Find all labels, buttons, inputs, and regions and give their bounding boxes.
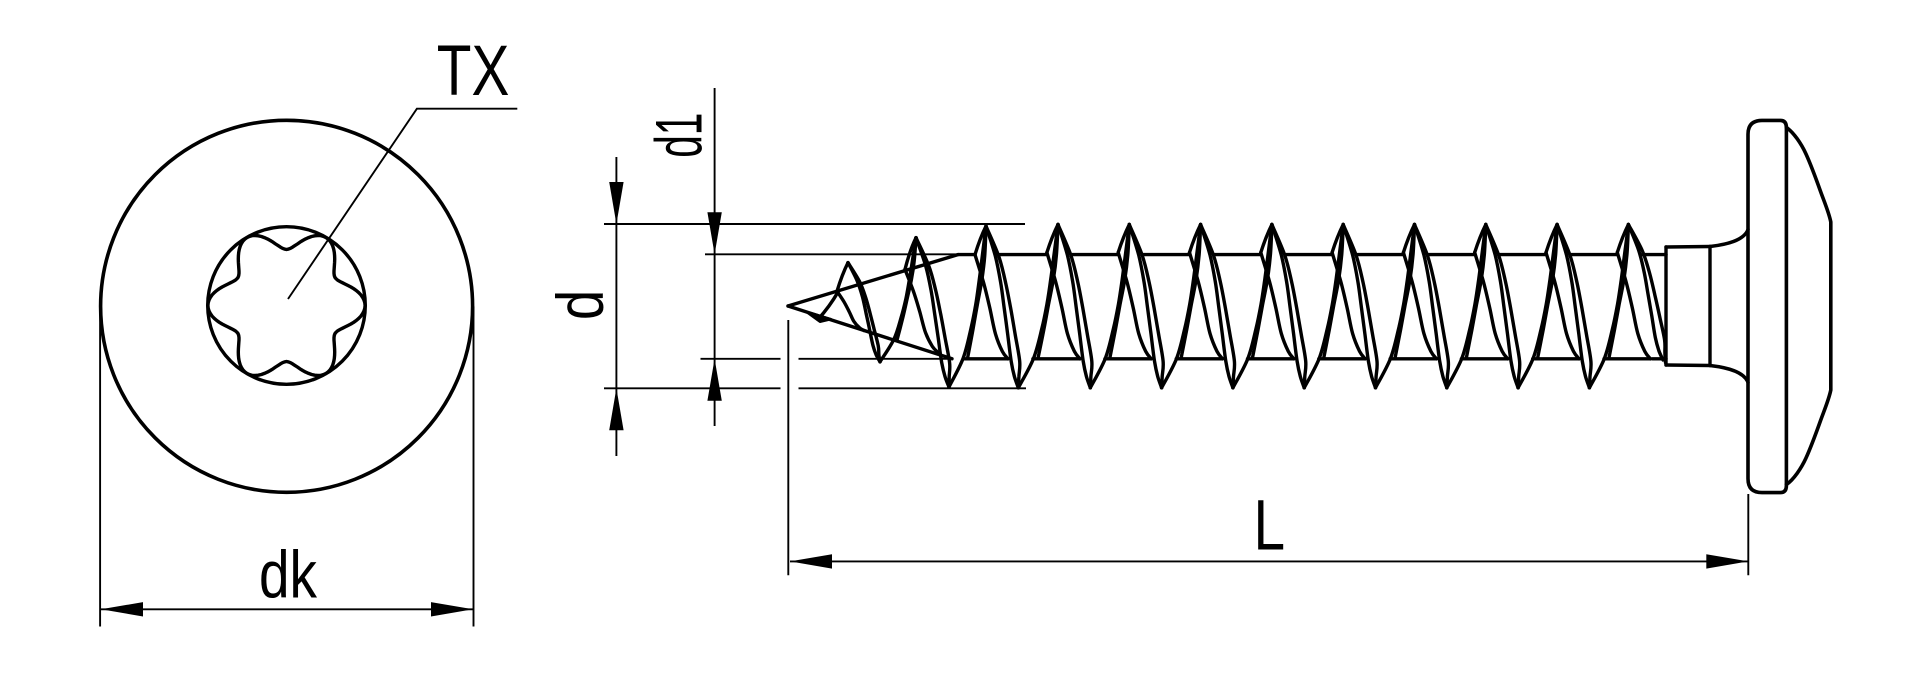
neck end edge: [1708, 247, 1711, 366]
svg-text:L: L: [1254, 485, 1286, 565]
thread turn 9 front flank a: [1415, 225, 1447, 388]
thread turn 2 back flank b: [968, 226, 987, 358]
dk extension line left: [99, 307, 101, 627]
thread turn 11 back flank a: [1589, 225, 1628, 388]
neck lower line: [1666, 363, 1710, 367]
L extension line right: [1747, 494, 1749, 575]
thread turn 3 back flank a: [1018, 225, 1058, 388]
thread turn 6 back flank a: [1233, 225, 1272, 388]
thread turn 5 front flank b: [1129, 225, 1163, 388]
thread turn 12 root flank curve: [1617, 253, 1650, 359]
thread turn 6 front flank b: [1201, 225, 1235, 388]
svg-text:d1: d1: [642, 113, 716, 158]
thread crest 3 left edge: [975, 226, 986, 255]
thread turn 4 root flank curve: [1047, 253, 1080, 359]
thread start spike: [806, 312, 831, 322]
thread turn 10 back flank a: [1518, 225, 1557, 388]
svg-text:dk: dk: [259, 538, 317, 612]
svg-text:d: d: [543, 290, 617, 320]
head dome profile: [1786, 128, 1830, 485]
thread turn 1 front flank b: [848, 263, 880, 362]
thread crest 12 left edge: [1617, 225, 1628, 253]
thread turn 12 front flank b: [1628, 225, 1665, 363]
d1 extension line bottom: [701, 358, 953, 360]
thread turn 2 root flank curve: [905, 269, 938, 352]
thread turn 11 front flank a: [1557, 225, 1589, 388]
L dimension line: [790, 560, 1748, 562]
thread turn 11 front flank b: [1557, 225, 1591, 388]
d arrow top: [609, 182, 623, 224]
under-head fillet top: [1710, 230, 1748, 247]
thread turn 4 front flank a: [1058, 225, 1090, 388]
dk extension line right: [473, 307, 475, 627]
d arrow bottom: [609, 388, 623, 430]
thread turn 1 back flank a: [880, 238, 916, 362]
thread turn 9 root flank curve: [1403, 253, 1436, 359]
thread turn 11 root flank curve: [1546, 253, 1579, 359]
thread turn 7 back flank a: [1304, 225, 1343, 388]
head washer flange: [1748, 120, 1786, 492]
L arrow right: [1706, 554, 1748, 568]
thread turn 12 front flank a: [1628, 225, 1663, 361]
thread turn 9 back flank b: [1466, 225, 1486, 359]
thread turn 3 root flank curve: [975, 255, 1008, 359]
thread turn 8 back flank b: [1395, 225, 1415, 359]
thread turn 5 root flank curve: [1118, 253, 1151, 359]
thread turn 10 front flank b: [1486, 225, 1520, 388]
thread turn 8 front flank a: [1343, 225, 1375, 388]
thread turn 8 back flank a: [1376, 225, 1415, 388]
thread turn 2 back flank a: [949, 226, 986, 387]
TX leader line: [288, 109, 517, 299]
thread turn 1 back flank b: [897, 238, 916, 340]
thread turn 6 root flank curve: [1190, 253, 1223, 359]
screw tip cone upper edge: [788, 255, 958, 306]
thread turn 7 front flank a: [1272, 225, 1304, 388]
thread turn 10 back flank b: [1538, 225, 1558, 359]
thread crest 8 left edge: [1332, 225, 1343, 253]
d1 arrow top: [707, 212, 721, 254]
thread turn 8 front flank b: [1343, 225, 1377, 388]
thread crest 10 left edge: [1475, 225, 1486, 253]
thread turn 3 front flank b: [986, 226, 1020, 388]
thread root upper silhouette: [958, 253, 1666, 256]
dk arrow left: [101, 602, 143, 616]
thread crest 5 left edge: [1118, 225, 1129, 253]
L extension line left: [787, 320, 789, 575]
d1 arrow bottom: [707, 359, 721, 401]
thread crest 6 left edge: [1190, 225, 1201, 253]
thread turn 5 back flank b: [1181, 225, 1201, 359]
thread turn 10 root flank curve: [1475, 253, 1508, 359]
thread turn 9 back flank a: [1447, 225, 1486, 388]
thread turn 1 front flank a: [848, 263, 880, 362]
thread crest 1 left edge: [837, 263, 848, 292]
thread crest 7 left edge: [1261, 225, 1272, 253]
d1 extension line top: [705, 253, 958, 255]
thread turn 4 back flank b: [1110, 225, 1130, 359]
thread turn 9 front flank b: [1415, 225, 1449, 388]
d dimension line: [615, 157, 617, 456]
thread turn 1 root flank curve: [837, 291, 864, 330]
head top view outer circle (dk): [101, 120, 473, 492]
d extension line top: [604, 223, 1025, 225]
thread crest 9 left edge: [1403, 225, 1414, 253]
neck upper line: [1666, 245, 1710, 249]
thread turn 5 front flank a: [1129, 225, 1161, 388]
thread turn 6 front flank a: [1201, 225, 1233, 388]
thread turn 2 front flank b: [916, 238, 950, 387]
d1 dimension line: [714, 88, 716, 426]
thread crest 2 left edge: [905, 238, 916, 270]
thread start curve: [818, 292, 838, 320]
thread turn 11 back flank b: [1609, 225, 1629, 359]
thread turn 7 back flank b: [1324, 225, 1344, 359]
thread turn 2 front flank a: [916, 238, 949, 387]
dk arrow right: [431, 602, 473, 616]
thread turn 4 front flank b: [1058, 225, 1092, 388]
thread turn 3 back flank b: [1038, 225, 1058, 359]
thread turn 8 root flank curve: [1332, 253, 1365, 359]
thread turn 7 front flank b: [1272, 225, 1306, 388]
thread turn 5 back flank a: [1162, 225, 1201, 388]
thread crest 4 left edge: [1047, 225, 1058, 253]
thread turn 7 root flank curve: [1261, 253, 1294, 359]
thread turn 4 back flank a: [1090, 225, 1129, 388]
screw tip cone lower edge: [788, 306, 952, 359]
TX hexalobular recess: [208, 236, 365, 376]
TX recess circle: [208, 227, 366, 385]
thread root lower silhouette: [964, 357, 1666, 360]
dk dimension line: [100, 608, 473, 610]
thread crest 11 left edge: [1546, 225, 1557, 253]
svg-text:TX: TX: [437, 31, 510, 111]
d extension line bottom: [604, 387, 1026, 389]
thread turn 10 front flank a: [1486, 225, 1518, 388]
thread end edge: [1664, 247, 1667, 365]
under-head fillet bottom: [1710, 366, 1748, 383]
thread turn 6 back flank b: [1252, 225, 1272, 359]
L arrow left: [790, 554, 832, 568]
thread turn 3 front flank a: [986, 226, 1018, 388]
